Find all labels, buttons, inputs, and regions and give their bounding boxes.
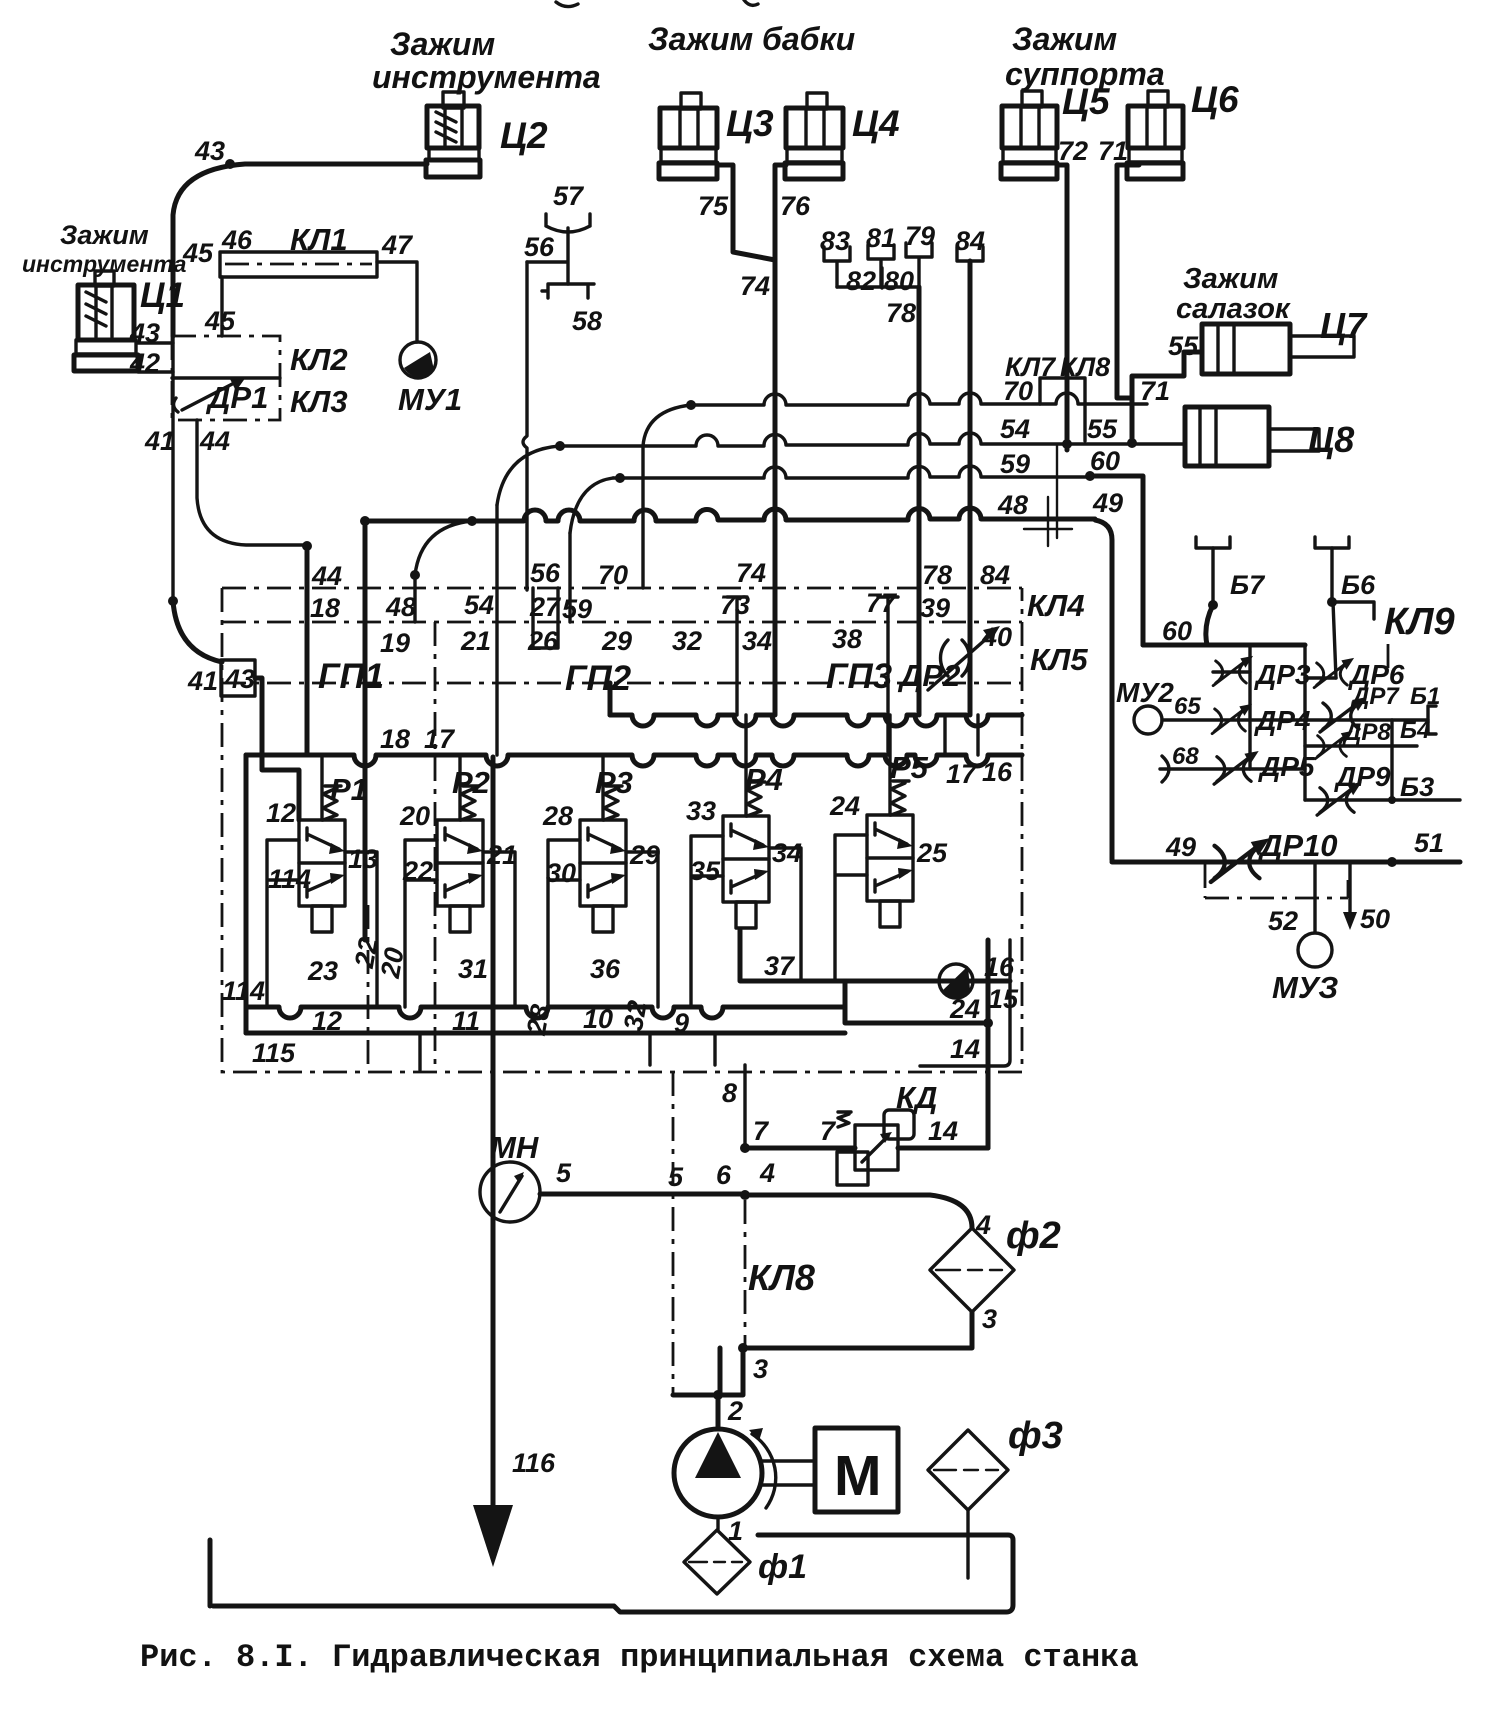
svg-text:30: 30 [546, 858, 576, 888]
pipe 74 into block [773, 588, 778, 715]
port U loop 27-26 [533, 588, 558, 648]
cylinder C3 [659, 93, 717, 179]
valve KL7 KL8 taps [1040, 378, 1085, 538]
svg-text:7: 7 [820, 1116, 837, 1146]
svg-text:Зажим: Зажим [1183, 263, 1278, 295]
svg-text:Ц5: Ц5 [1062, 81, 1111, 122]
svg-text:72: 72 [1058, 136, 1088, 166]
svg-text:51: 51 [1414, 828, 1444, 858]
gauge MN [480, 1162, 540, 1222]
svg-text:5: 5 [556, 1158, 572, 1188]
svg-text:57: 57 [553, 181, 585, 211]
wire 76 from C4 [775, 165, 786, 260]
svg-text:47: 47 [381, 230, 414, 260]
svg-text:81: 81 [866, 223, 896, 253]
tank outlet 83 [824, 247, 850, 287]
pipe 78 into block [917, 588, 922, 715]
plug 73 [727, 597, 747, 622]
svg-text:ф1: ф1 [758, 1548, 807, 1586]
svg-text:МУ1: МУ1 [398, 382, 462, 417]
valve KD [837, 1110, 914, 1185]
svg-text:КД: КД [896, 1080, 937, 1115]
svg-text:78: 78 [886, 298, 916, 328]
cylinder C2 [426, 92, 480, 177]
valve R3 [548, 755, 658, 1007]
svg-text:34: 34 [772, 838, 802, 868]
svg-text:49: 49 [1165, 832, 1196, 862]
wire pump to F1 [716, 1517, 719, 1530]
valve block KL2 / DR1 / KL3 [138, 336, 280, 420]
svg-text:70: 70 [598, 560, 628, 590]
svg-text:44: 44 [199, 426, 230, 456]
motor M [815, 1428, 898, 1512]
svg-text:22: 22 [402, 856, 433, 886]
svg-text:ГП3: ГП3 [826, 657, 893, 696]
svg-text:84: 84 [980, 560, 1010, 590]
pilot dash 368 [367, 905, 370, 1072]
svg-text:48: 48 [385, 592, 416, 622]
svg-text:60: 60 [1090, 446, 1120, 476]
svg-text:Б4: Б4 [1400, 717, 1430, 744]
bottom bus upper [246, 1007, 845, 1018]
svg-text:КЛ5: КЛ5 [1030, 642, 1088, 677]
pressure switch MU3 [1298, 933, 1332, 967]
svg-text:29: 29 [601, 626, 632, 656]
svg-text:4: 4 [975, 1210, 991, 1240]
svg-text:Зажим: Зажим [60, 220, 149, 250]
svg-text:17: 17 [946, 759, 978, 789]
svg-text:12: 12 [312, 1006, 342, 1036]
svg-text:28: 28 [521, 1002, 556, 1038]
svg-text:МУЗ: МУЗ [1272, 970, 1338, 1005]
pipe 59 down [568, 533, 571, 622]
pipe 70 vertical [641, 446, 644, 588]
svg-text:8: 8 [722, 1078, 737, 1108]
svg-text:49: 49 [1092, 488, 1123, 518]
KL9 boundary dash [1387, 644, 1390, 668]
wire 43 from C2 to KL2 [173, 159, 427, 336]
pump shaft [760, 1461, 815, 1485]
svg-text:Р2: Р2 [452, 765, 490, 800]
svg-text:18: 18 [380, 724, 410, 754]
svg-text:КЛ8: КЛ8 [748, 1257, 815, 1298]
svg-text:КЛ1: КЛ1 [290, 222, 348, 257]
svg-text:Рис. 8.I. Гидравлическая принц: Рис. 8.I. Гидравлическая принципиальная … [140, 1639, 1139, 1676]
svg-text:37: 37 [764, 951, 796, 981]
pilot KL8 branch [744, 1200, 747, 1348]
throttle DR6 [1305, 658, 1354, 688]
svg-text:Б6: Б6 [1341, 570, 1376, 600]
filter F1 [684, 1530, 750, 1594]
svg-text:19: 19 [380, 628, 410, 658]
svg-text:58: 58 [572, 306, 602, 336]
wire 24-14 [845, 940, 993, 1148]
svg-text:59: 59 [1000, 449, 1030, 479]
cropped text fragment top edge [556, 0, 758, 7]
crossing mark 48-49 [1024, 497, 1072, 546]
svg-text:20: 20 [399, 801, 430, 831]
svg-text:80: 80 [884, 266, 914, 296]
svg-text:54: 54 [1000, 414, 1030, 444]
pressure switch MU1 [400, 342, 436, 378]
bottom links [420, 1033, 715, 1070]
svg-text:Ц1: Ц1 [140, 276, 185, 315]
svg-text:3: 3 [753, 1354, 768, 1384]
port box 43 [221, 660, 255, 696]
cylinder C5 [1001, 91, 1057, 179]
wire 48 (W4) [365, 508, 1095, 580]
svg-text:2: 2 [727, 1396, 743, 1426]
wire 5 [540, 1190, 750, 1200]
filter F2 [930, 1228, 1014, 1312]
svg-text:ф3: ф3 [1008, 1415, 1063, 1457]
svg-text:КЛ7: КЛ7 [1005, 352, 1057, 382]
manifold row C [222, 682, 1022, 685]
throttle DR2 [928, 626, 1000, 690]
svg-text:116: 116 [512, 1448, 556, 1478]
svg-text:79: 79 [905, 221, 935, 251]
svg-text:Ц6: Ц6 [1191, 79, 1239, 120]
svg-text:4: 4 [759, 1158, 775, 1188]
svg-text:10: 10 [583, 1004, 613, 1034]
svg-text:75: 75 [698, 191, 729, 221]
manifold row A [222, 587, 1022, 590]
column 1392 [1390, 720, 1393, 800]
valve R4 [691, 715, 801, 1007]
wire KD to 14 [898, 1146, 988, 1151]
svg-text:Ц7: Ц7 [1320, 305, 1368, 346]
svg-text:ДР9: ДР9 [1334, 761, 1391, 792]
svg-text:5: 5 [668, 1162, 684, 1192]
wire KL9 corner [1332, 602, 1374, 619]
wire 4 to F2 [745, 1195, 972, 1228]
filter F3 [928, 1430, 1008, 1578]
svg-text:ДР8: ДР8 [1342, 719, 1391, 746]
svg-text:14: 14 [928, 1116, 958, 1146]
svg-text:44: 44 [311, 561, 342, 591]
wire 82-80 manifold [837, 268, 919, 288]
wire 7 [740, 1143, 855, 1153]
throttle DR1 arrow [173, 377, 246, 412]
svg-text:55: 55 [1087, 414, 1118, 444]
svg-text:25: 25 [916, 838, 948, 868]
bottom bus lower [246, 1031, 845, 1036]
svg-text:ДР7: ДР7 [1350, 683, 1400, 710]
svg-text:Р5: Р5 [890, 750, 929, 785]
svg-text:74: 74 [740, 271, 770, 301]
pressure switch MU2 [1134, 706, 1162, 734]
svg-text:46: 46 [221, 225, 253, 255]
svg-text:Зажим: Зажим [390, 26, 495, 62]
svg-text:3: 3 [982, 1304, 997, 1334]
throttle DR9 [1305, 782, 1460, 815]
pipe 737 into block [735, 622, 738, 715]
pump [674, 1428, 776, 1517]
svg-text:41: 41 [187, 666, 218, 696]
svg-text:38: 38 [832, 624, 862, 654]
svg-text:82: 82 [846, 266, 876, 296]
svg-text:114: 114 [268, 864, 311, 894]
svg-text:45: 45 [204, 306, 236, 336]
cylinder C6 [1127, 91, 1183, 179]
wire 54-55 (W2) [497, 433, 1185, 505]
tank B7 [1196, 537, 1230, 645]
svg-text:33: 33 [686, 796, 716, 826]
svg-text:Зажим: Зажим [1012, 21, 1117, 57]
svg-text:Р4: Р4 [745, 762, 783, 797]
svg-text:32: 32 [672, 626, 702, 656]
tank outlet 79 [906, 243, 932, 287]
svg-text:ГП1: ГП1 [318, 657, 384, 696]
pipe 54 down [495, 505, 498, 755]
lower bus [246, 755, 1022, 766]
svg-text:71: 71 [1098, 136, 1128, 166]
pipe 48 down [413, 575, 416, 622]
wire 18-17 vertical [363, 521, 368, 940]
svg-text:77: 77 [866, 588, 898, 618]
svg-text:40: 40 [981, 622, 1012, 652]
pipe 78 down to row A [917, 287, 922, 588]
svg-text:МУ2: МУ2 [1116, 677, 1174, 708]
cylinder C1 [74, 271, 138, 371]
throttle DR8 [1305, 731, 1417, 759]
svg-text:29: 29 [629, 840, 660, 870]
svg-text:Б3: Б3 [1400, 772, 1434, 802]
svg-text:114: 114 [222, 976, 265, 1006]
bus links 17-16 [945, 715, 978, 755]
svg-text:71: 71 [1140, 376, 1170, 406]
svg-text:32: 32 [618, 998, 653, 1033]
svg-text:34: 34 [742, 626, 772, 656]
throttle DR7 [1305, 697, 1436, 734]
wire GP2 edge [608, 683, 613, 715]
svg-text:14: 14 [950, 1034, 980, 1064]
tank B6 [1315, 537, 1349, 607]
wire 52 MU3 [1313, 862, 1316, 932]
svg-text:43: 43 [194, 136, 225, 166]
wire 59-60 (W3) [570, 466, 1095, 533]
svg-text:М: М [834, 1444, 881, 1508]
svg-text:83: 83 [820, 226, 850, 256]
svg-text:43: 43 [224, 664, 255, 694]
dash-dot pilot line [434, 622, 437, 1072]
wire 70 (W1) [643, 393, 1147, 446]
valve R1 [267, 755, 377, 1007]
svg-text:ГП2: ГП2 [565, 659, 632, 698]
svg-text:Ц8: Ц8 [1308, 419, 1354, 460]
svg-text:ДР4: ДР4 [1254, 705, 1311, 736]
svg-text:МН: МН [490, 1130, 539, 1165]
svg-text:12: 12 [266, 798, 296, 828]
svg-text:68: 68 [1172, 743, 1199, 770]
pipe 77 into block [886, 622, 889, 755]
svg-text:16: 16 [982, 757, 1013, 787]
svg-text:56: 56 [524, 232, 555, 262]
wire B6 down to DR6 [1333, 602, 1336, 678]
tank outlet 57 [527, 214, 590, 284]
wire 47 from KL1 to MU1 [377, 262, 417, 342]
wire 50 [1343, 862, 1357, 930]
svg-text:ф2: ф2 [1006, 1215, 1061, 1257]
wire left edge GP1 [305, 588, 310, 755]
svg-text:15: 15 [988, 984, 1019, 1014]
valve R2 [405, 755, 515, 1007]
tank lines [210, 1535, 1013, 1612]
svg-text:43: 43 [129, 318, 160, 348]
svg-text:9: 9 [674, 1008, 689, 1038]
wire 60 into KL9 [1143, 643, 1305, 648]
pipe 84 into block [968, 588, 973, 715]
svg-text:36: 36 [590, 954, 621, 984]
svg-text:11: 11 [452, 1006, 480, 1036]
cylinder C7 [1202, 324, 1354, 374]
valve KL1 [220, 252, 377, 277]
svg-text:115: 115 [252, 1038, 296, 1068]
wire 60 heavy to KL9 [1090, 476, 1143, 645]
svg-text:42: 42 [129, 348, 160, 378]
svg-text:73: 73 [720, 590, 750, 620]
wire 44 from KL2 down to manifold [197, 420, 370, 588]
manifold row B [222, 621, 1022, 624]
svg-text:35: 35 [690, 856, 721, 886]
svg-text:18: 18 [310, 593, 340, 623]
pipe 56 down to manifold [523, 262, 527, 590]
plug 77 [878, 597, 898, 622]
svg-text:41: 41 [144, 426, 175, 456]
svg-text:54: 54 [464, 590, 494, 620]
svg-text:39: 39 [920, 593, 950, 623]
wire 49-51 [1112, 838, 1460, 882]
upper bus [610, 715, 1022, 726]
valve R5 [835, 715, 913, 981]
svg-text:17: 17 [424, 724, 456, 754]
svg-text:84: 84 [955, 226, 985, 256]
wire 49 heavy to KL9 [1095, 520, 1112, 860]
drain wire 116 [473, 757, 513, 1567]
svg-text:48: 48 [997, 490, 1028, 520]
svg-text:КЛ2: КЛ2 [290, 342, 348, 377]
wire 75 from C3 [717, 165, 775, 260]
svg-text:Б7: Б7 [1230, 570, 1266, 600]
wire 43 inside block [255, 678, 299, 820]
svg-text:65: 65 [1174, 693, 1201, 720]
throttle DR3 [1213, 656, 1253, 686]
wire F2 to pump [673, 1312, 972, 1429]
svg-text:7: 7 [753, 1116, 770, 1146]
svg-text:Зажим бабки: Зажим бабки [648, 21, 855, 57]
svg-text:Р3: Р3 [595, 765, 633, 800]
svg-text:59: 59 [562, 594, 592, 624]
right column low [920, 940, 1010, 1066]
svg-text:Ц4: Ц4 [852, 103, 900, 144]
svg-text:50: 50 [1360, 904, 1390, 934]
svg-text:45: 45 [182, 238, 214, 268]
svg-text:КЛ8: КЛ8 [1060, 352, 1110, 382]
svg-text:Ц3: Ц3 [726, 103, 774, 144]
column 1250 [1248, 645, 1251, 769]
svg-text:28: 28 [542, 801, 573, 831]
KL9 bottom dash [1205, 864, 1348, 898]
tank outlet 58 [542, 284, 594, 298]
svg-text:31: 31 [458, 954, 488, 984]
wire 45 KL1 to KL2 [220, 277, 223, 336]
svg-text:78: 78 [922, 560, 952, 590]
wire 68 DR5 [1160, 751, 1305, 784]
svg-text:инструмента: инструмента [22, 251, 187, 277]
check valve line [740, 930, 1010, 998]
cylinder C8 [1185, 407, 1319, 466]
svg-text:Б1: Б1 [1410, 683, 1440, 710]
svg-text:ДР1: ДР1 [205, 380, 268, 415]
wire C7 to node [1132, 352, 1202, 441]
wire 72 from C5 [1057, 165, 1067, 450]
svg-text:ДР3: ДР3 [1254, 659, 1311, 690]
svg-text:24: 24 [829, 791, 860, 821]
svg-text:24: 24 [949, 994, 980, 1024]
wire 65 DR4 [1162, 704, 1305, 734]
wire 41 down left [168, 336, 222, 662]
pipe 74 down to row A [773, 260, 778, 588]
tank outlet 81 [868, 245, 894, 287]
wire 8 [743, 1065, 746, 1148]
svg-text:52: 52 [1268, 906, 1298, 936]
svg-text:74: 74 [736, 558, 766, 588]
cylinder C4 [785, 93, 843, 179]
svg-text:КЛ9: КЛ9 [1384, 601, 1455, 643]
svg-text:23: 23 [307, 956, 338, 986]
svg-text:салазок: салазок [1176, 293, 1291, 325]
svg-text:56: 56 [530, 558, 561, 588]
svg-text:13: 13 [348, 844, 378, 874]
svg-text:ДР10: ДР10 [1257, 828, 1338, 863]
pipe 84 down to row A [968, 261, 973, 588]
svg-text:Ц2: Ц2 [500, 115, 548, 156]
svg-text:21: 21 [460, 626, 491, 656]
svg-text:76: 76 [780, 191, 811, 221]
svg-text:6: 6 [716, 1160, 732, 1190]
column 1305 [1303, 645, 1306, 800]
svg-text:Р1: Р1 [330, 772, 368, 807]
block boundary dash-dot [222, 588, 1022, 1072]
tank outlet 84 [957, 247, 983, 261]
svg-text:инструмента: инструмента [372, 59, 601, 95]
svg-text:КЛ3: КЛ3 [290, 384, 348, 419]
wire 71 from C6 [1117, 165, 1139, 398]
svg-text:КЛ4: КЛ4 [1027, 588, 1085, 623]
pilot line KL8 [672, 1072, 675, 1395]
svg-text:60: 60 [1162, 616, 1192, 646]
left column [244, 755, 249, 1033]
